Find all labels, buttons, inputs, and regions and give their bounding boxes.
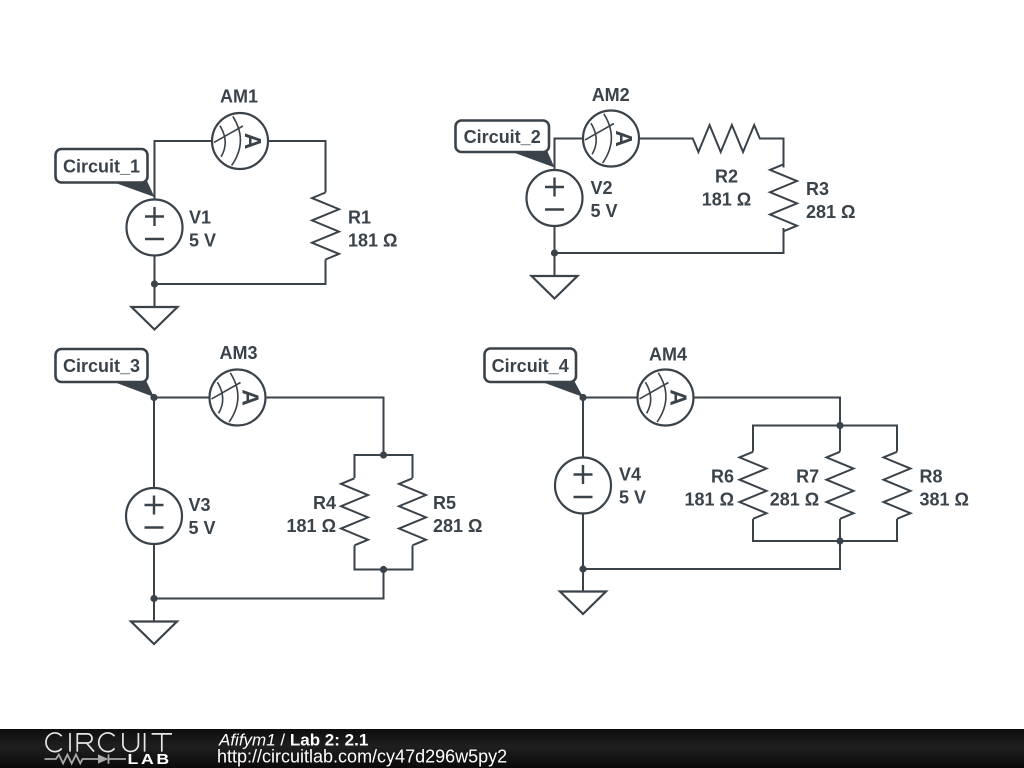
footer bar (0, 729, 1024, 768)
ammeter AM4 (638, 370, 694, 426)
ground (532, 276, 578, 299)
ground (132, 307, 178, 330)
wire parallel bottom rail (753, 519, 897, 541)
svg-text:AM1: AM1 (220, 87, 258, 107)
wire V2 top to AM2 left (555, 139, 584, 171)
svg-text:http://circuitlab.com/cy47d296: http://circuitlab.com/cy47d296w5py2 (217, 747, 507, 767)
callout Circuit_4 tail (538, 381, 583, 398)
resistor R7 (827, 452, 854, 519)
svg-text:181 Ω: 181 Ω (287, 516, 336, 536)
ammeter AM2 (583, 111, 639, 167)
wire junction to AM4 left (583, 397, 638, 399)
svg-text:R4: R4 (313, 493, 336, 513)
svg-text:181 Ω: 181 Ω (685, 489, 734, 509)
svg-text:R8: R8 (920, 466, 943, 486)
resistor R1 (312, 193, 339, 260)
voltage source V2 (527, 170, 583, 226)
node junction dot (151, 280, 158, 287)
wire AM3 right to parallel top node (266, 398, 384, 456)
svg-text:Circuit_3: Circuit_3 (63, 356, 140, 376)
wire junction to AM3 left (154, 397, 210, 399)
ammeter AM1 (212, 113, 268, 169)
wire AM2 right to R2 left (639, 138, 694, 140)
node junction dot top-left (150, 394, 157, 401)
node parallel bottom dot (380, 566, 387, 573)
svg-text:AM3: AM3 (219, 343, 257, 363)
callout Circuit_2 tail (508, 151, 555, 168)
svg-text:R3: R3 (806, 179, 829, 199)
node feed top dot (836, 422, 843, 429)
svg-text:AM4: AM4 (649, 345, 687, 365)
voltage source V3 (126, 488, 182, 544)
svg-text:5 V: 5 V (189, 518, 216, 538)
wire R2 right to R3 top (759, 139, 784, 168)
node bottom-left dot (579, 565, 586, 572)
svg-text:V2: V2 (591, 178, 613, 198)
wire AM1 right to R1 top (268, 141, 326, 193)
logo resistor-diode squiggle (45, 754, 127, 764)
svg-text:Circuit_4: Circuit_4 (492, 356, 569, 376)
svg-text:381 Ω: 381 Ω (920, 489, 969, 509)
svg-text:5 V: 5 V (591, 201, 618, 221)
voltage source V1 (127, 200, 183, 256)
svg-text:LAB: LAB (128, 751, 172, 767)
wire R3 bottom to bottom rail (555, 228, 784, 253)
resistor R2 (693, 125, 760, 152)
wire parallel bottom rail (355, 546, 413, 570)
node junction dot top-left (579, 394, 586, 401)
svg-text:V1: V1 (189, 208, 211, 228)
svg-text:R6: R6 (711, 466, 734, 486)
callout Circuit_1 box (56, 149, 148, 183)
svg-text:R5: R5 (433, 493, 456, 513)
wire V1 bottom to ground stub (154, 256, 156, 308)
wire V4 top to junction (582, 398, 584, 458)
callout Circuit_3 box (56, 349, 148, 382)
wire V2 bottom to ground stub (554, 226, 556, 276)
svg-text:5 V: 5 V (189, 231, 216, 251)
resistor R6 (740, 452, 767, 519)
wire bottom node to bottom rail (583, 519, 840, 569)
resistor R8 (884, 452, 911, 519)
wire parallel top rail (355, 455, 413, 478)
callout Circuit_1 tail (110, 181, 155, 197)
ground (560, 592, 606, 615)
wire R1 bottom to bottom rail (155, 260, 326, 285)
callout Circuit_3 tail (110, 381, 154, 398)
wire V3 top to junction (153, 398, 155, 489)
logo CIRCUIT lettering (46, 733, 172, 752)
ground (131, 622, 177, 645)
wire parallel top rail (753, 426, 897, 452)
svg-text:R2: R2 (715, 167, 738, 187)
svg-text:V3: V3 (189, 495, 211, 515)
svg-text:281 Ω: 281 Ω (806, 202, 855, 222)
node parallel top dot (380, 451, 387, 458)
wire AM4 right to feed node (694, 398, 841, 426)
node feed bottom dot (836, 537, 843, 544)
callout Circuit_4 box (485, 349, 577, 383)
svg-text:R7: R7 (796, 466, 819, 486)
resistor R3 (770, 164, 797, 231)
svg-text:R1: R1 (348, 208, 371, 228)
svg-text:281 Ω: 281 Ω (433, 516, 482, 536)
svg-text:AM2: AM2 (592, 85, 630, 105)
callout Circuit_2 box (456, 121, 550, 153)
ammeter AM3 (210, 370, 266, 426)
resistor R4 (341, 478, 368, 545)
node bottom-left dot (150, 595, 157, 602)
wire V1 top to AM1 left (155, 141, 213, 200)
svg-text:5 V: 5 V (619, 488, 646, 508)
svg-text:181 Ω: 181 Ω (348, 231, 397, 251)
svg-text:181 Ω: 181 Ω (702, 190, 751, 210)
wire R7 top stub (839, 426, 841, 452)
svg-text:V4: V4 (619, 465, 641, 485)
wire V4 bottom to ground stub (582, 514, 584, 592)
svg-text:Circuit_1: Circuit_1 (63, 157, 140, 177)
voltage source V4 (555, 458, 611, 514)
wire bottom node to bottom rail (154, 570, 384, 599)
svg-text:Circuit_2: Circuit_2 (464, 127, 541, 147)
resistor R5 (399, 478, 426, 545)
svg-text:281 Ω: 281 Ω (770, 489, 819, 509)
node junction dot (551, 249, 558, 256)
wire V3 bottom to ground stub (153, 544, 155, 622)
